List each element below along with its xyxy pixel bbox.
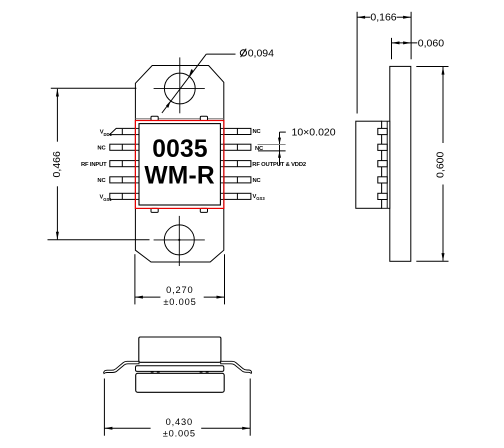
svg-text:GS1: GS1 <box>103 197 112 202</box>
dim 0,060 ext <box>391 38 393 59</box>
dim 0,270 line <box>135 296 161 298</box>
lid side <box>356 121 382 208</box>
svg-text:WM-R: WM-R <box>144 163 214 190</box>
bottom hole center dot <box>178 239 180 241</box>
dim 0,430 ext right <box>249 379 251 436</box>
pin 3 <box>110 161 136 167</box>
dim 0,060 line <box>392 42 418 44</box>
top hole centerline horizontal <box>154 87 205 89</box>
lead left gull-wing <box>104 361 139 373</box>
dim 0,430 line <box>104 427 150 429</box>
lid tab bottom-right <box>200 208 207 212</box>
leader arrow upper <box>189 70 194 76</box>
dim 0,600 ext top <box>416 66 448 68</box>
svg-text:NC: NC <box>253 129 262 135</box>
lid tab top-left <box>151 116 158 120</box>
lid end view <box>139 337 221 362</box>
lid tab top-right <box>200 116 207 120</box>
svg-text:±0.005: ±0.005 <box>163 297 196 307</box>
mounting hole top <box>164 73 195 104</box>
flange outline <box>135 66 223 263</box>
tab marks end view <box>151 371 209 373</box>
pin 7 <box>224 177 251 183</box>
svg-text:0,600: 0,600 <box>435 152 447 178</box>
pin 4 <box>110 177 136 183</box>
lead right gull-wing <box>221 361 252 373</box>
dim 0,466 ext bottom <box>48 239 150 241</box>
dim 0,166 ext right <box>410 12 412 60</box>
pin 1 (top-left, chamfered) <box>110 128 136 134</box>
svg-text:0,270: 0,270 <box>166 285 193 295</box>
seal frame end view <box>136 366 224 372</box>
dim 0,600 ext bottom <box>416 260 448 262</box>
svg-text:DD1: DD1 <box>104 132 113 137</box>
pin 10 (top-right) <box>224 128 251 134</box>
pin hidden lines right <box>220 128 224 199</box>
bottom hole centerline vertical <box>178 216 180 266</box>
flange end view <box>136 373 225 392</box>
svg-text:NC: NC <box>253 178 262 184</box>
dia label <box>240 49 246 57</box>
flange hidden line (gray) <box>135 118 223 120</box>
dim 0,166 line <box>357 16 370 18</box>
top hole centerline vertical <box>179 57 181 113</box>
dim 0,166 ext left <box>356 12 358 114</box>
svg-text:0,094: 0,094 <box>248 48 274 60</box>
seal ring highlight (red) <box>135 121 224 209</box>
body strip side <box>382 121 390 208</box>
pin hidden lines left <box>135 128 139 199</box>
svg-text:RF INPUT: RF INPUT <box>81 162 107 168</box>
svg-text:0035: 0035 <box>152 136 208 163</box>
dim 0,466 line <box>56 89 58 142</box>
svg-text:0,060: 0,060 <box>418 37 444 49</box>
pins side <box>378 128 387 199</box>
lid <box>139 124 220 205</box>
pin 8 <box>224 161 251 167</box>
pin 9 <box>224 144 251 150</box>
svg-text:0,166: 0,166 <box>370 12 396 24</box>
svg-text:0,430: 0,430 <box>166 417 193 427</box>
dim 0,270 ext lines <box>134 254 136 304</box>
lid tab bottom-left <box>151 208 158 212</box>
hole diameter leader <box>162 54 206 113</box>
svg-text:NC: NC <box>97 146 106 152</box>
pin 6 <box>224 193 251 199</box>
flange side <box>390 66 411 261</box>
bottom hole centerline horizontal <box>154 239 205 241</box>
pin 2 <box>110 144 136 150</box>
leader arrow lower <box>167 101 171 108</box>
svg-text:0,466: 0,466 <box>51 151 63 177</box>
dim 0,600 line <box>442 67 444 143</box>
dim 0,430 ext left <box>103 379 105 436</box>
svg-text:10×0.020: 10×0.020 <box>292 127 336 139</box>
svg-text:±0.005: ±0.005 <box>163 428 196 438</box>
dim 0,466 ext top <box>51 87 137 89</box>
svg-text:GS3: GS3 <box>256 196 265 201</box>
pin 5 <box>110 193 136 199</box>
callout 10x0.020 <box>280 131 286 133</box>
mounting hole bottom <box>164 225 194 255</box>
svg-text:NC: NC <box>97 178 106 184</box>
